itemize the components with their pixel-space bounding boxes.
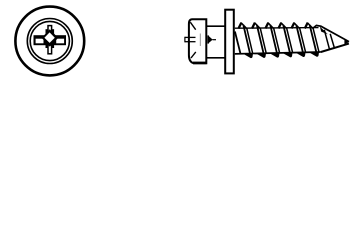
- tip: solid point: [344, 40, 349, 45]
- threads: bottom teeth: [243, 52, 319, 58]
- phillips recess: black diamond: [42, 29, 59, 46]
- front view: pan head outer ring: [27, 19, 72, 64]
- side view: recess slot upper line: [185, 36, 196, 38]
- phillips recess: white slot top: [48, 26, 52, 33]
- phillips recess: horizontal black band: [34, 35, 67, 45]
- threads: black wedge on taper: [320, 27, 328, 35]
- phillips recess: white diamond center: [44, 32, 54, 43]
- side view: neck bottom line: [206, 57, 225, 59]
- phillips recess: white slot left: [36, 39, 44, 44]
- front view: washer outer circle: [15, 7, 84, 76]
- side view: recess diagonal upper: [190, 22, 195, 30]
- threads: bottom taper line to tip: [321, 44, 349, 52]
- side view: neck top line: [206, 25, 225, 27]
- phillips recess: white slot right: [56, 39, 64, 44]
- side view: head bottom thick edge: [193, 62, 207, 65]
- side view: washer: [225, 10, 234, 74]
- front view: pan head inner ring: [30, 21, 69, 60]
- side view: recess diagonal lower: [191, 52, 196, 58]
- side view: head face faint line: [199, 34, 201, 47]
- side view: recess slot lower line: [185, 41, 196, 43]
- side view: recess slot left cap: [184, 37, 186, 43]
- phillips recess: vertical black band: [46, 29, 55, 48]
- threads: bottom root line: [235, 52, 321, 54]
- threads: top root line: [235, 27, 319, 30]
- phillips recess: white slot bottom: [48, 45, 52, 54]
- side view: recess black cone marker: [208, 35, 213, 43]
- threads: helix flank lines: [235, 25, 317, 57]
- threads: top teeth: [239, 23, 349, 42]
- side view: pan head outline: [189, 19, 206, 63]
